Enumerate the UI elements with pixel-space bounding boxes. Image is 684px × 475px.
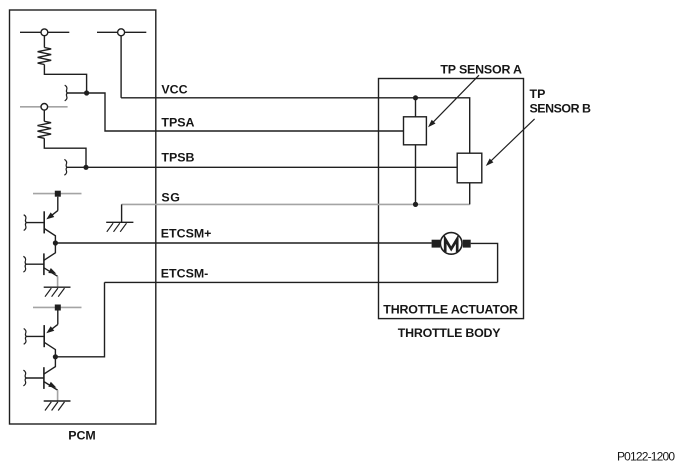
svg-text:ETCSM+: ETCSM+ [161, 226, 212, 240]
svg-text:PCM: PCM [68, 428, 96, 442]
svg-text:TPSA: TPSA [161, 116, 194, 130]
svg-text:ETCSM-: ETCSM- [161, 266, 209, 280]
svg-text:THROTTLE BODY: THROTTLE BODY [398, 326, 501, 340]
svg-text:TP SENSOR A: TP SENSOR A [440, 63, 522, 77]
svg-text:THROTTLE ACTUATOR: THROTTLE ACTUATOR [383, 303, 518, 317]
svg-text:SENSOR B: SENSOR B [530, 101, 592, 115]
svg-text:SG: SG [161, 190, 180, 204]
svg-text:TP: TP [530, 87, 546, 101]
svg-text:TPSB: TPSB [161, 151, 194, 165]
svg-text:P0122-1200: P0122-1200 [617, 449, 675, 463]
svg-text:VCC: VCC [161, 82, 187, 96]
